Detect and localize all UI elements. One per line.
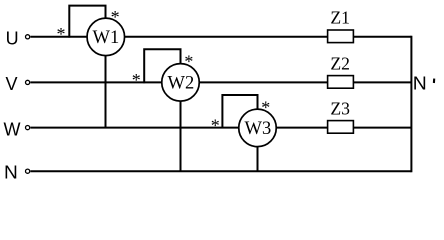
- impedance Z2: [328, 53, 354, 88]
- wire W phase line: [30, 127, 410, 129]
- svg-text:W1: W1: [93, 28, 120, 48]
- wire V phase line: [30, 81, 410, 83]
- node N': [413, 74, 434, 94]
- wire W3 voltage coil tap loop: [222, 95, 257, 128]
- node N: [4, 162, 30, 182]
- wattmeter W1: [87, 18, 125, 56]
- svg-text:N: N: [4, 162, 18, 182]
- svg-text:*: *: [111, 7, 120, 27]
- svg-text:*: *: [261, 98, 270, 118]
- svg-text:Z2: Z2: [330, 53, 350, 73]
- svg-text:Z1: Z1: [330, 8, 350, 28]
- wire W2 voltage coil to N line: [180, 101, 182, 172]
- svg-text:V: V: [6, 74, 18, 94]
- wire right bus N': [410, 36, 412, 172]
- node V: [6, 74, 30, 94]
- wire U phase line: [30, 36, 411, 38]
- svg-text:W2: W2: [168, 74, 195, 94]
- impedance Z3: [328, 99, 354, 134]
- wire N neutral line: [30, 170, 411, 172]
- svg-text:W: W: [4, 119, 21, 139]
- wattmeter W2: [162, 64, 200, 102]
- svg-text:Z3: Z3: [330, 99, 350, 119]
- node U: [6, 29, 30, 49]
- svg-text:*: *: [57, 24, 66, 44]
- wire W1 voltage coil tap loop: [69, 6, 105, 38]
- node W: [4, 119, 30, 139]
- wire W3 voltage coil to N line: [257, 147, 259, 172]
- svg-text:*: *: [211, 115, 220, 135]
- svg-text:U: U: [6, 29, 19, 49]
- wire W2 voltage coil tap loop: [144, 49, 180, 83]
- svg-text:W3: W3: [245, 119, 272, 139]
- svg-text:N: N: [413, 74, 427, 94]
- wire W1 voltage coil to W line: [105, 56, 107, 129]
- svg-text:*: *: [132, 70, 141, 90]
- impedance Z1: [328, 8, 354, 43]
- svg-text:*: *: [184, 51, 193, 71]
- wattmeter W3: [239, 109, 277, 146]
